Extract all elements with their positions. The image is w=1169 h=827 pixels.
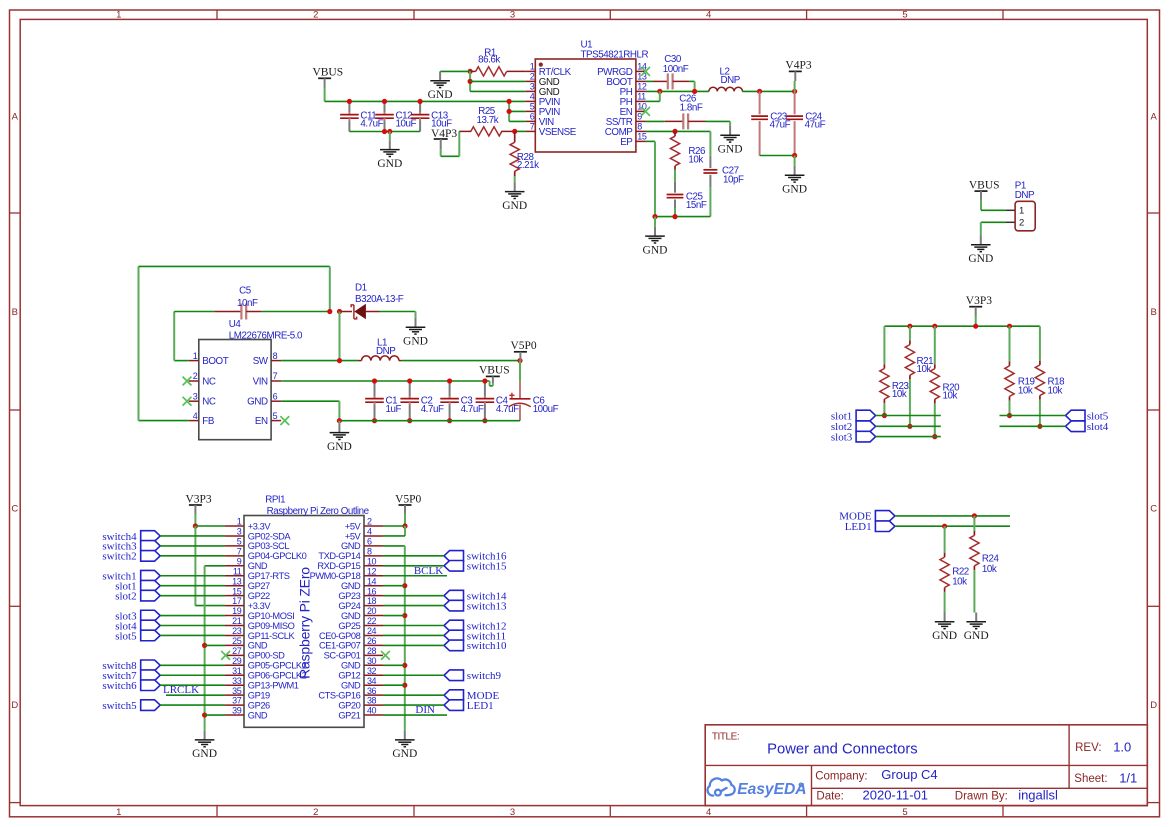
svg-text:ingallsl: ingallsl xyxy=(1018,788,1058,803)
svg-text:GP10-MOSI: GP10-MOSI xyxy=(248,611,295,621)
svg-text:11: 11 xyxy=(637,92,646,102)
svg-text:slot3: slot3 xyxy=(831,431,853,443)
svg-text:switch5: switch5 xyxy=(102,700,137,712)
svg-text:10k: 10k xyxy=(943,390,958,401)
svg-text:18: 18 xyxy=(367,596,377,606)
svg-text:9: 9 xyxy=(637,112,642,122)
svg-text:GND: GND xyxy=(643,244,668,256)
svg-text:10k: 10k xyxy=(1018,386,1033,397)
svg-text:3: 3 xyxy=(510,10,515,21)
svg-text:GND: GND xyxy=(192,748,217,760)
svg-text:switch10: switch10 xyxy=(467,640,507,652)
svg-text:6: 6 xyxy=(273,391,278,401)
svg-text:GND: GND xyxy=(341,611,361,621)
svg-text:NC: NC xyxy=(202,376,216,387)
svg-text:GND: GND xyxy=(403,336,428,348)
svg-text:14: 14 xyxy=(637,62,647,72)
svg-text:GND: GND xyxy=(341,661,361,671)
svg-text:TITLE:: TITLE: xyxy=(712,732,739,743)
svg-text:Date:: Date: xyxy=(816,790,844,802)
svg-text:slot5: slot5 xyxy=(115,630,137,642)
svg-text:36: 36 xyxy=(367,686,377,696)
svg-text:Power and Connectors: Power and Connectors xyxy=(767,742,918,758)
svg-text:switch15: switch15 xyxy=(467,561,507,573)
svg-text:3: 3 xyxy=(510,807,515,818)
svg-text:4.7uF: 4.7uF xyxy=(360,119,383,130)
svg-text:TPS54821RHLR: TPS54821RHLR xyxy=(581,50,649,61)
svg-text:RPI1: RPI1 xyxy=(265,494,285,505)
svg-text:2: 2 xyxy=(1019,218,1024,229)
svg-text:4.7uF: 4.7uF xyxy=(496,404,519,415)
svg-text:D: D xyxy=(11,700,18,711)
svg-text:9: 9 xyxy=(237,556,242,566)
svg-text:1: 1 xyxy=(237,517,242,527)
svg-text:47uF: 47uF xyxy=(805,120,826,131)
svg-text:3: 3 xyxy=(237,527,242,537)
svg-text:1: 1 xyxy=(116,10,121,21)
svg-text:TXD-GP14: TXD-GP14 xyxy=(318,551,360,561)
svg-text:32: 32 xyxy=(367,666,377,676)
svg-text:NC: NC xyxy=(202,397,216,408)
svg-text:GND: GND xyxy=(248,710,268,720)
svg-text:30: 30 xyxy=(367,656,377,666)
svg-text:BOOT: BOOT xyxy=(202,356,228,367)
svg-text:4: 4 xyxy=(367,527,372,537)
svg-text:GND: GND xyxy=(341,541,361,551)
svg-text:switch13: switch13 xyxy=(467,600,507,612)
svg-text:29: 29 xyxy=(232,656,242,666)
svg-text:GP09-MISO: GP09-MISO xyxy=(248,621,295,631)
svg-text:4.7uF: 4.7uF xyxy=(421,404,444,415)
svg-text:V5P0: V5P0 xyxy=(395,493,421,505)
svg-text:SC-GP01: SC-GP01 xyxy=(324,651,361,661)
svg-text:GND: GND xyxy=(782,184,807,196)
svg-text:38: 38 xyxy=(367,696,377,706)
svg-text:GP20: GP20 xyxy=(338,700,360,710)
svg-text:GP02-SDA: GP02-SDA xyxy=(248,531,292,541)
svg-text:4: 4 xyxy=(706,10,711,21)
svg-text:switch6: switch6 xyxy=(102,680,137,692)
svg-text:Group C4: Group C4 xyxy=(881,767,937,782)
svg-text:GND: GND xyxy=(377,158,402,170)
svg-text:CE0-GP08: CE0-GP08 xyxy=(319,631,361,641)
svg-text:D: D xyxy=(1150,700,1157,711)
svg-text:47uF: 47uF xyxy=(770,120,791,131)
svg-text:switch2: switch2 xyxy=(102,551,136,563)
svg-text:100uF: 100uF xyxy=(533,404,559,415)
svg-text:26: 26 xyxy=(367,636,377,646)
svg-text:GND: GND xyxy=(502,200,527,212)
svg-text:33: 33 xyxy=(232,676,242,686)
svg-text:13: 13 xyxy=(232,576,242,586)
svg-text:10k: 10k xyxy=(688,155,703,166)
svg-text:SW: SW xyxy=(253,356,269,367)
svg-text:5: 5 xyxy=(530,102,535,112)
svg-text:1: 1 xyxy=(530,62,535,72)
svg-text:4: 4 xyxy=(530,92,535,102)
svg-text:VSENSE: VSENSE xyxy=(539,127,577,138)
svg-text:GND: GND xyxy=(932,630,957,642)
svg-text:15nF: 15nF xyxy=(686,200,707,211)
svg-text:GP22: GP22 xyxy=(248,591,270,601)
svg-text:GP11-SCLK: GP11-SCLK xyxy=(248,631,296,641)
svg-text:10pF: 10pF xyxy=(723,174,744,185)
svg-text:slot2: slot2 xyxy=(115,590,136,602)
svg-text:7: 7 xyxy=(237,546,242,556)
svg-text:34: 34 xyxy=(367,676,377,686)
svg-text:+3.3V: +3.3V xyxy=(248,521,272,531)
svg-text:RXD-GP15: RXD-GP15 xyxy=(317,561,360,571)
svg-text:REV:: REV: xyxy=(1075,742,1101,754)
svg-text:2: 2 xyxy=(313,10,318,21)
svg-text:LED1: LED1 xyxy=(467,700,494,712)
svg-text:CE1-GP07: CE1-GP07 xyxy=(319,641,361,651)
svg-text:D1: D1 xyxy=(355,283,367,294)
svg-text:10k: 10k xyxy=(892,389,907,400)
svg-text:VIN: VIN xyxy=(253,376,268,387)
svg-text:13: 13 xyxy=(637,72,647,82)
svg-text:28: 28 xyxy=(367,646,377,656)
svg-text:+3.3V: +3.3V xyxy=(248,601,272,611)
svg-text:11: 11 xyxy=(233,566,242,576)
svg-text:EN: EN xyxy=(255,416,268,427)
svg-text:C: C xyxy=(1150,504,1157,515)
svg-text:GP00-SD: GP00-SD xyxy=(248,651,285,661)
svg-text:U4: U4 xyxy=(229,319,242,330)
svg-text:10k: 10k xyxy=(917,364,932,375)
svg-text:LM22676MRE-5.0: LM22676MRE-5.0 xyxy=(229,331,303,342)
svg-text:12: 12 xyxy=(367,566,377,576)
svg-text:GND: GND xyxy=(248,641,268,651)
svg-text:1uF: 1uF xyxy=(386,404,402,415)
svg-text:22: 22 xyxy=(367,616,377,626)
svg-text:GND: GND xyxy=(327,441,352,453)
svg-text:1.0: 1.0 xyxy=(1113,739,1131,754)
svg-text:3: 3 xyxy=(193,391,198,401)
svg-text:5: 5 xyxy=(237,537,242,547)
svg-text:1: 1 xyxy=(193,351,198,361)
svg-text:GP03-SCL: GP03-SCL xyxy=(248,541,290,551)
svg-text:1: 1 xyxy=(1019,206,1024,217)
svg-text:C: C xyxy=(11,504,18,515)
svg-text:GND: GND xyxy=(248,561,268,571)
svg-text:2: 2 xyxy=(530,72,535,82)
svg-text:GP27: GP27 xyxy=(248,581,270,591)
svg-text:27: 27 xyxy=(232,646,242,656)
svg-text:Drawn By:: Drawn By: xyxy=(955,790,1008,802)
svg-text:GP13-PWM1: GP13-PWM1 xyxy=(248,681,299,691)
svg-text:24: 24 xyxy=(367,626,377,636)
svg-text:39: 39 xyxy=(232,706,242,716)
svg-text:23: 23 xyxy=(232,626,242,636)
svg-text:10k: 10k xyxy=(982,564,997,575)
svg-text:16: 16 xyxy=(367,586,377,596)
svg-text:Sheet:: Sheet: xyxy=(1074,773,1107,785)
svg-text:37: 37 xyxy=(232,696,242,706)
svg-text:FB: FB xyxy=(202,416,215,427)
svg-text:4: 4 xyxy=(193,411,198,421)
svg-text:10k: 10k xyxy=(952,577,967,588)
svg-text:8: 8 xyxy=(637,122,642,132)
svg-text:2: 2 xyxy=(367,517,372,527)
svg-text:GP04-GPCLK0: GP04-GPCLK0 xyxy=(248,551,307,561)
svg-text:GND: GND xyxy=(341,681,361,691)
svg-text:1.8nF: 1.8nF xyxy=(680,102,703,113)
svg-text:Raspberry Pi Zero Outline: Raspberry Pi Zero Outline xyxy=(267,506,370,517)
svg-text:GND: GND xyxy=(968,253,993,265)
svg-text:7: 7 xyxy=(530,122,535,132)
svg-text:12: 12 xyxy=(637,82,647,92)
svg-text:VBUS: VBUS xyxy=(479,365,510,377)
svg-text:5: 5 xyxy=(902,10,907,21)
svg-text:Company:: Company: xyxy=(815,770,867,782)
svg-text:25: 25 xyxy=(232,636,242,646)
svg-text:10: 10 xyxy=(367,556,377,566)
svg-text:EP: EP xyxy=(620,137,633,148)
svg-text:1/1: 1/1 xyxy=(1119,770,1137,785)
svg-text:21: 21 xyxy=(232,616,242,626)
svg-text:31: 31 xyxy=(232,666,242,676)
svg-text:switch9: switch9 xyxy=(467,670,502,682)
svg-text:+5V: +5V xyxy=(345,531,362,541)
svg-text:GND: GND xyxy=(392,748,417,760)
svg-text:10k: 10k xyxy=(1048,386,1063,397)
svg-text:B: B xyxy=(12,307,18,318)
svg-text:GND: GND xyxy=(964,630,989,642)
svg-text:slot4: slot4 xyxy=(1087,421,1109,433)
svg-text:GP25: GP25 xyxy=(338,621,360,631)
svg-text:17: 17 xyxy=(232,596,242,606)
svg-text:VBUS: VBUS xyxy=(312,67,343,79)
svg-text:86.6k: 86.6k xyxy=(478,55,500,66)
svg-text:6: 6 xyxy=(367,537,372,547)
svg-text:B320A-13-F: B320A-13-F xyxy=(355,294,404,305)
svg-text:8: 8 xyxy=(367,546,372,556)
svg-text:GP17-RTS: GP17-RTS xyxy=(248,571,290,581)
svg-text:GP12: GP12 xyxy=(338,671,360,681)
svg-text:LED1: LED1 xyxy=(845,521,872,533)
svg-text:19: 19 xyxy=(232,606,242,616)
svg-text:2: 2 xyxy=(313,807,318,818)
svg-text:+5V: +5V xyxy=(345,521,362,531)
svg-text:40: 40 xyxy=(367,706,377,716)
svg-text:13.7k: 13.7k xyxy=(477,115,499,126)
svg-text:5: 5 xyxy=(902,807,907,818)
svg-text:2020-11-01: 2020-11-01 xyxy=(863,788,929,803)
svg-text:GP24: GP24 xyxy=(338,601,360,611)
svg-text:V3P3: V3P3 xyxy=(185,493,211,505)
svg-text:GP21: GP21 xyxy=(338,710,360,720)
svg-text:DNP: DNP xyxy=(721,75,741,86)
svg-text:10nF: 10nF xyxy=(237,298,258,309)
svg-text:35: 35 xyxy=(232,686,242,696)
svg-text:8: 8 xyxy=(273,351,278,361)
svg-text:3: 3 xyxy=(530,82,535,92)
svg-text:C5: C5 xyxy=(239,286,252,297)
svg-text:100nF: 100nF xyxy=(663,64,689,75)
svg-text:4: 4 xyxy=(706,807,711,818)
svg-text:GND: GND xyxy=(428,89,453,101)
svg-text:V5P0: V5P0 xyxy=(510,340,536,352)
svg-text:V3P3: V3P3 xyxy=(966,295,992,307)
svg-text:GND: GND xyxy=(341,581,361,591)
svg-text:GND: GND xyxy=(718,144,743,156)
svg-text:20: 20 xyxy=(367,606,377,616)
svg-text:6: 6 xyxy=(530,112,535,122)
svg-text:V4P3: V4P3 xyxy=(785,60,811,72)
svg-text:10uF: 10uF xyxy=(396,119,417,130)
svg-text:15: 15 xyxy=(232,586,242,596)
svg-text:VBUS: VBUS xyxy=(969,179,1000,191)
svg-text:2: 2 xyxy=(193,371,198,381)
svg-text:15: 15 xyxy=(637,132,647,142)
svg-text:GP23: GP23 xyxy=(338,591,360,601)
svg-text:Raspberry Pi ZEro: Raspberry Pi ZEro xyxy=(296,567,312,679)
svg-text:GND: GND xyxy=(247,397,268,408)
svg-text:EasyEDA: EasyEDA xyxy=(737,781,806,798)
svg-text:R: R xyxy=(799,783,803,789)
svg-text:4.7uF: 4.7uF xyxy=(461,404,484,415)
svg-text:1: 1 xyxy=(116,807,121,818)
svg-text:2.21k: 2.21k xyxy=(517,160,539,171)
svg-text:10: 10 xyxy=(637,102,647,112)
svg-text:14: 14 xyxy=(367,576,377,586)
svg-text:DNP: DNP xyxy=(376,346,396,357)
svg-text:PWM0-GP18: PWM0-GP18 xyxy=(310,571,361,581)
svg-text:GP19: GP19 xyxy=(248,690,270,700)
svg-text:5: 5 xyxy=(273,411,278,421)
svg-text:DNP: DNP xyxy=(1015,190,1035,201)
svg-text:CTS-GP16: CTS-GP16 xyxy=(318,690,360,700)
svg-text:GP26: GP26 xyxy=(248,700,270,710)
svg-text:7: 7 xyxy=(273,371,278,381)
svg-text:B: B xyxy=(1151,307,1157,318)
